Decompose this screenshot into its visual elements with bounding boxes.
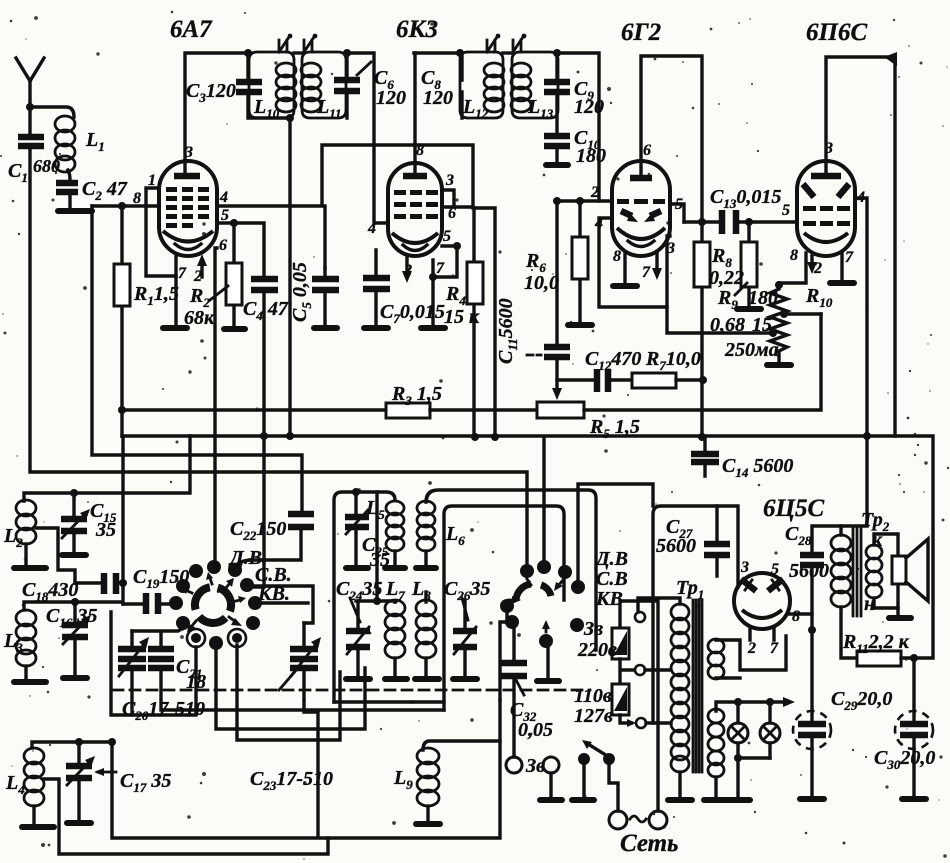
wire link L12 to L13 top (503, 51, 512, 54)
svg-text:С2017-510: С2017-510 (122, 698, 205, 723)
wire 6P6S anode bracket (826, 57, 895, 436)
svg-text:6Г2: 6Г2 (621, 19, 661, 46)
wire C27 box (653, 506, 738, 723)
pin labels 6P6S (782, 140, 865, 277)
band switch rotor hub (218, 588, 231, 612)
wire L1 to C2 (68, 170, 70, 180)
ground 6P6S pin7 (830, 280, 854, 286)
wire 6P6S pin8 to R10 top (779, 253, 806, 283)
svg-text:С2317-510: С2317-510 (250, 768, 333, 793)
svg-text:2: 2 (813, 260, 822, 277)
wire antenna to L1 (30, 107, 74, 117)
svg-text:С70,015: С70,015 (380, 301, 445, 326)
wire bottom bus A (112, 700, 500, 838)
wire main bus B+ (122, 436, 933, 658)
switch 2 contacts (500, 599, 514, 613)
electrolytic C29 (793, 711, 831, 749)
trimmer capacitor C15 (72, 493, 75, 552)
wire top bus to 6K3 pin8 (414, 51, 460, 54)
dashed pointer C11 (527, 354, 541, 357)
svg-text:7: 7 (642, 264, 651, 281)
wire 6G2 pin2 horizontal (557, 199, 612, 202)
terminal bar below C10 (546, 162, 568, 168)
capacitor C4 (251, 279, 278, 290)
transformer Tp2 primary (831, 535, 851, 607)
svg-text:КВ: КВ (595, 588, 623, 610)
switch contact terminals with rings (191, 633, 201, 643)
trimmer capacitor C16 (73, 602, 76, 675)
wire C13 node vertical R8 chain (700, 222, 703, 437)
wire C5 (323, 268, 326, 325)
wire C18 row (75, 581, 123, 584)
svg-text:120: 120 (574, 96, 604, 118)
resistor R2 (232, 223, 235, 326)
svg-text:3: 3 (666, 240, 675, 257)
svg-text:2: 2 (403, 262, 412, 279)
wire C13 output (684, 220, 797, 223)
terminal bar L6 (416, 565, 436, 571)
svg-text:С115600: С115600 (495, 298, 520, 364)
pin labels 6G2 (590, 142, 683, 281)
inductor L8 (424, 592, 427, 602)
wire riser to switch2 SV contact (542, 437, 545, 562)
wire 6P6S pin7 to ground (840, 254, 843, 280)
tube 6K3 grids (394, 190, 438, 219)
node C6 top (343, 49, 351, 57)
capacitor C6 (334, 80, 360, 91)
wire L3 bottom (24, 666, 27, 679)
node C9 top (553, 49, 561, 57)
wire L13 top to 6G2 grid feed (557, 53, 599, 201)
resistor R5 (537, 402, 584, 418)
svg-text:С.В: С.В (596, 568, 628, 590)
wire Tp2 secondary to speaker (874, 534, 898, 608)
tube 6G2 anode (630, 175, 652, 182)
svg-text:5: 5 (771, 561, 779, 578)
tube 6C5S rectifier envelope (734, 573, 790, 629)
svg-text:5600: 5600 (789, 560, 829, 582)
svg-text:3: 3 (184, 144, 193, 161)
resistor R7 (632, 373, 676, 388)
node antenna (26, 103, 34, 111)
wire C24 to L7 link (356, 601, 396, 602)
ground C5 (314, 325, 337, 331)
svg-text:Зв: Зв (583, 618, 603, 640)
tube 6P6S grids (803, 206, 850, 226)
tube 6P6S anode (811, 173, 841, 180)
6A7 pin7 wire (174, 254, 177, 325)
pilot lamp 1 (736, 702, 739, 758)
ground C15 (62, 552, 86, 558)
6K3 pin3 to pin6 tie (442, 190, 473, 207)
wire lamp bottoms (738, 758, 770, 797)
svg-text:6Ц5С: 6Ц5С (763, 495, 824, 522)
svg-text:8: 8 (792, 608, 800, 625)
svg-text:С14 5600: С14 5600 (722, 455, 793, 480)
power switch (578, 753, 590, 765)
wire 6G2 anode bracket (641, 56, 702, 222)
tube 6A7 grids (166, 187, 209, 228)
svg-text:3: 3 (740, 559, 749, 576)
IF transformer box L12 (460, 52, 503, 118)
fuse plug 110v (612, 684, 629, 715)
terminal bar L4 (22, 824, 54, 830)
tube 6G2 envelope (612, 161, 670, 256)
wire R11 right (901, 656, 914, 659)
trimmer capacitor C26 (463, 600, 466, 676)
tube 6P6S beam plates (803, 184, 814, 197)
capacitor C19 (123, 602, 173, 605)
capacitor C7 (363, 278, 390, 289)
variable capacitor C23 (302, 623, 305, 700)
inductor L11 (301, 63, 321, 112)
ground C26 (453, 676, 477, 682)
wire Tp1 primary bottom (678, 772, 681, 797)
wire switch lower contact route B (237, 645, 340, 740)
wire KV stub (262, 601, 308, 604)
transformer Tp2 secondary (866, 545, 882, 598)
svg-text:н: н (864, 593, 875, 615)
resistor R4 (472, 208, 475, 437)
trimmer arrow L10 (279, 37, 289, 52)
node R4 bus (471, 433, 479, 441)
svg-text:Сеть: Сеть (620, 830, 678, 857)
capacitor C11 (544, 347, 570, 357)
wire 6A7 pin6 down to band switch (215, 248, 217, 563)
capacitor C10 (544, 136, 570, 146)
wire riser L7 node to L5 node (375, 492, 378, 601)
svg-text:18: 18 (186, 671, 206, 693)
svg-text:0,68: 0,68 (710, 314, 745, 336)
node C8 top (456, 49, 464, 57)
svg-text:180: 180 (576, 145, 606, 167)
wire riser from C23 region (304, 700, 318, 837)
tube 6P6S cathode (804, 233, 848, 242)
ground speaker (889, 615, 911, 621)
ground C29 (800, 796, 824, 802)
svg-text:R3 1,5: R3 1,5 (391, 383, 442, 408)
inductor L3 (24, 602, 75, 610)
svg-text:С16 35: С16 35 (46, 605, 97, 630)
wire bus 410 start (122, 408, 386, 411)
wire 6P6S pin4 lead down to bus (855, 198, 867, 436)
tap circle 220v (635, 612, 645, 622)
tube 6P6S envelope (797, 161, 855, 256)
svg-text:8: 8 (613, 248, 621, 265)
svg-text:6П6С: 6П6С (806, 19, 867, 46)
6K3 pin5-pin7 box (433, 246, 457, 277)
svg-text:180: 180 (748, 287, 778, 309)
inductor L2 (16, 500, 36, 544)
transformer Tp1 lamp winding (708, 709, 724, 777)
wire lamp feed (716, 702, 787, 711)
svg-text:С22150: С22150 (230, 518, 286, 543)
wire speaker to ground (896, 608, 899, 615)
svg-text:120: 120 (423, 87, 453, 109)
label slash R2 (210, 286, 228, 300)
svg-text:7: 7 (770, 640, 779, 657)
band switch 2 rotor (516, 584, 531, 601)
svg-text:3: 3 (445, 172, 454, 189)
terminal bar L2 (14, 565, 46, 571)
svg-text:R11,5: R11,5 (133, 283, 179, 308)
wire C7 (374, 250, 377, 325)
svg-text:15 к: 15 к (444, 306, 480, 328)
svg-text:6: 6 (448, 205, 456, 222)
wire R5 to R10 tap riser (584, 314, 821, 410)
dashed gang line (113, 689, 590, 692)
voltage selector common riser (620, 601, 658, 811)
trimmer capacitor C17 (77, 742, 80, 820)
svg-text:7: 7 (436, 260, 445, 277)
svg-text:3: 3 (824, 140, 833, 157)
svg-text:4: 4 (367, 220, 376, 237)
pilot lamp 2 (768, 702, 771, 758)
6G2 pin7 cathode arrow (655, 254, 658, 272)
wire C4 down to band switch (254, 290, 264, 587)
IF transformer box L10 (249, 52, 294, 118)
nested routing box inner (444, 506, 564, 710)
terminal bar L5 (385, 565, 405, 571)
svg-text:С12470: С12470 (585, 348, 641, 373)
svg-text:к: к (872, 529, 883, 551)
box around C20 C21 (111, 612, 196, 715)
svg-text:6: 6 (219, 237, 227, 254)
ground lamp winding (704, 797, 728, 803)
tube 6C5S plates (741, 579, 756, 591)
wire fuse bottom to tap (620, 715, 631, 723)
mains terminal left (609, 811, 627, 829)
ground power switch (572, 797, 594, 803)
ground C7 (364, 325, 388, 331)
svg-text:6К3: 6К3 (396, 16, 438, 43)
svg-text:0,22: 0,22 (709, 267, 744, 289)
speaker (892, 556, 906, 584)
inductor L5 (386, 501, 404, 551)
wire 6A7 pin5 lead to C4 (217, 223, 264, 279)
ground Tp1 primary (668, 797, 692, 803)
svg-text:0,05: 0,05 (518, 719, 553, 741)
svg-text:5: 5 (782, 202, 790, 219)
svg-text:R112,2 к: R112,2 к (842, 631, 910, 656)
capacitor C14 (703, 437, 706, 476)
svg-text:С3020,0: С3020,0 (874, 747, 935, 772)
svg-text:127в: 127в (574, 705, 613, 727)
trimmer capacitor C25 (354, 492, 357, 565)
capacitor C9 (544, 82, 570, 92)
svg-text:С4 47: С4 47 (243, 298, 289, 323)
wire C20 C21 tops (132, 628, 183, 649)
node top bus C3 junction (244, 49, 252, 57)
inductor L1 (55, 116, 75, 172)
label slash R9 (735, 283, 747, 295)
label slash C6 (357, 62, 371, 75)
transformer Tp2 core (853, 528, 861, 616)
resistor R6 (578, 201, 581, 322)
wire C12 bus (557, 378, 632, 381)
tube 6K3 envelope (388, 163, 442, 256)
svg-text:С2 47: С2 47 (82, 178, 128, 203)
inductor L13 (511, 63, 531, 112)
node pin5 (230, 219, 238, 227)
fuse plug 220v (612, 628, 629, 659)
wire C3 vertical (248, 53, 290, 118)
svg-text:4: 4 (856, 189, 865, 206)
tube 6A7 cathode (163, 231, 213, 242)
wire heater winding to 6C5S box (716, 636, 786, 678)
svg-text:8: 8 (416, 142, 424, 159)
wire 6A7 pin4 bus right with step to 6K3 area (217, 145, 495, 437)
wire 6A7 pin1 lead joins pin7 (146, 188, 176, 276)
antenna (16, 58, 44, 135)
tap circle 110v (635, 665, 645, 675)
wire 6C5S pin8 (790, 612, 812, 615)
6K3 pin2 cathode arrow (405, 256, 408, 276)
capacitor C28 (812, 526, 841, 796)
svg-text:120: 120 (376, 87, 406, 109)
potentiometer R10 (770, 283, 787, 362)
wire 6C5S pin stubs (750, 628, 774, 640)
ground C30 (902, 796, 926, 802)
svg-text:6: 6 (643, 142, 651, 159)
switch 2 arrows (509, 599, 515, 602)
wire L7 bottom (393, 658, 396, 676)
terminal 3v right (543, 757, 559, 773)
capacitor C32 (501, 663, 527, 676)
svg-text:110в: 110в (574, 685, 612, 707)
R10 tap middle (780, 310, 788, 318)
resistor R3 (386, 403, 430, 418)
pin labels 6A7 (133, 144, 229, 285)
ground switch2 contact (537, 678, 559, 684)
ground 6K3 pin7 (421, 325, 445, 331)
svg-text:5: 5 (675, 196, 683, 213)
wire C1 down left edge to bottom bus (30, 146, 527, 566)
wire 6K3 pin7 to ground (431, 277, 434, 325)
svg-text:1: 1 (148, 172, 156, 189)
wire link L10 to L11 top (294, 51, 302, 54)
wire L4 bottom (32, 806, 35, 824)
svg-text:6А7: 6А7 (170, 16, 213, 43)
svg-text:220в: 220в (577, 639, 617, 661)
wire fuse chain (620, 659, 633, 684)
tube 6G2 grid (617, 199, 665, 204)
wire Tp2 primary bottom to R11 (841, 607, 857, 658)
wire grounded contact (546, 648, 549, 678)
ground R9 (737, 306, 761, 312)
svg-text:680: 680 (33, 156, 60, 176)
label pointer C17 (98, 771, 116, 774)
switch contacts ring (189, 564, 203, 578)
capacitor C3 (236, 82, 262, 92)
trimmer arrow L12 (487, 37, 497, 52)
wire L8 bottom (424, 658, 427, 676)
wire 3v right to ground (549, 773, 552, 797)
svg-text:С5 0,05: С5 0,05 (289, 262, 314, 322)
svg-text:С19150: С19150 (133, 566, 189, 591)
R10 tap lower (769, 329, 777, 337)
ground L7 (385, 676, 407, 682)
inductor L6 (417, 501, 435, 551)
wire C11 to R5 arrow (555, 357, 558, 392)
svg-text:250ма: 250ма (724, 339, 779, 361)
wire switch2 KV contact to C27 side (578, 484, 653, 588)
wire 6A7 anode to top bus (185, 53, 249, 176)
inductor L10 (276, 63, 296, 112)
wire L2 bottom (24, 544, 27, 565)
svg-text:15: 15 (752, 314, 772, 336)
capacitor C12 (597, 369, 608, 392)
wire R3 to R5 (430, 408, 537, 411)
resistor R11 (857, 651, 901, 666)
mains tilde (630, 816, 646, 822)
trimmer arrow L13 (513, 37, 523, 52)
wire AVC vertical through C18 to L3 node (75, 438, 123, 604)
pin labels 6K3 (367, 142, 456, 279)
IF transformer box L11 (302, 52, 346, 118)
wire C6 vertical (345, 53, 348, 118)
wire C20 bottom (130, 668, 133, 715)
wire B+ to Tp2 primary (841, 436, 867, 535)
trimmer capacitor C24 (356, 601, 359, 676)
ground L8 (415, 676, 439, 682)
wire C9 C10 chain (555, 53, 558, 164)
switch pointer arrows (210, 578, 212, 584)
inductor L4 (24, 748, 44, 806)
svg-text:С3120: С3120 (186, 80, 236, 105)
wire C8 vertical (460, 53, 463, 118)
svg-text:С130,015: С130,015 (710, 186, 781, 211)
pin labels 6C5S (740, 559, 800, 657)
svg-text:С2920,0: С2920,0 (831, 688, 892, 713)
tube 6G2 diode plates (621, 211, 632, 216)
svg-text:7: 7 (178, 265, 187, 282)
terminal bar L3 (14, 679, 46, 685)
wire 6P6S pin2 cathode arrow (810, 256, 813, 266)
inductor L9 top wire (423, 741, 500, 750)
svg-text:5600: 5600 (656, 535, 696, 557)
resistor R8 (694, 242, 710, 287)
terminal bar C25 (346, 565, 368, 571)
capacitor C18 (104, 573, 116, 594)
ground R2 (224, 326, 245, 332)
wire L10 bottom long vertical to main bus (288, 118, 291, 436)
svg-text:R5 1,5: R5 1,5 (589, 416, 640, 441)
electrolytic C30 (912, 658, 915, 796)
wire R1 branch (120, 206, 123, 264)
svg-text:КВ.: КВ. (257, 583, 290, 605)
wire 6A7 pin8 bus left (92, 204, 159, 207)
svg-text:7: 7 (845, 249, 854, 266)
node L10 bottom (286, 114, 294, 122)
wire lamp winding bottom (714, 777, 717, 797)
tube 6C5S cathode (742, 610, 782, 618)
wire L9 bottom (426, 806, 429, 821)
svg-text:68к: 68к (184, 307, 215, 329)
ground C16 (63, 675, 87, 681)
wire 6G2 grid line down to C11 (555, 201, 558, 344)
wire routing bottom stub (334, 700, 444, 703)
inductor L12 (484, 63, 504, 112)
ground R6 (568, 322, 592, 328)
wire C5 top to pin4 bus (323, 206, 326, 268)
svg-text:С17 35: С17 35 (120, 770, 171, 795)
ground R10 (767, 362, 791, 368)
mains terminal right (649, 811, 667, 829)
inductor L4 top node (32, 742, 112, 748)
ground L9 (416, 821, 440, 827)
capacitor C13 (722, 210, 736, 234)
